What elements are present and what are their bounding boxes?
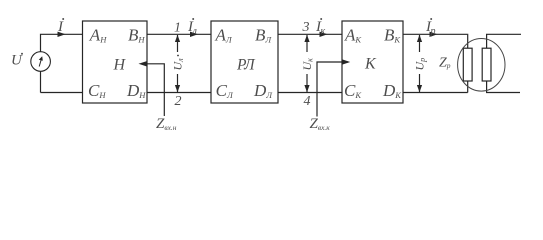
svg-text:DЛ: DЛ: [253, 81, 273, 100]
svg-text:Uл: Uл: [171, 58, 186, 71]
svg-text:DН: DН: [126, 81, 146, 100]
svg-text:к: к: [321, 26, 326, 37]
arrowhead current I_l: [190, 32, 198, 37]
svg-text:3: 3: [302, 20, 310, 35]
wire bottom K to load: [403, 92, 468, 94]
wire bottom H to RL: [147, 92, 211, 94]
svg-text:AЛ: AЛ: [215, 26, 233, 45]
wire bottom RL to K: [278, 92, 342, 94]
load lead bottom-right: [487, 81, 520, 93]
arrowhead Z_vx.n left: [139, 61, 147, 66]
svg-text:BН: BН: [128, 26, 145, 45]
svg-text:BЛ: BЛ: [255, 26, 272, 45]
voltage arrow U_l line bottom: [177, 74, 179, 92]
svg-text:4: 4: [304, 94, 311, 109]
two-port K box: [342, 21, 403, 103]
svg-text:РЛ: РЛ: [236, 56, 256, 73]
label voltage U_r rotated: [413, 58, 428, 71]
voltage arrow U_l line top: [177, 35, 179, 52]
arrowhead voltage U_k down: [304, 85, 309, 92]
arrowhead voltage U_r down: [417, 85, 422, 92]
wire top K to load: [403, 33, 467, 35]
svg-text:л: л: [192, 26, 198, 37]
two-port H box: [83, 21, 148, 103]
svg-text:Zр: Zр: [439, 56, 451, 71]
load impedance rect left: [463, 48, 472, 81]
arrowhead voltage U_l down: [175, 85, 180, 92]
svg-text:Zвх.н: Zвх.н: [156, 116, 177, 132]
wire top RL to K: [278, 33, 342, 35]
arrowhead voltage U_r up: [417, 35, 422, 42]
svg-text:Uр: Uр: [413, 58, 428, 71]
voltage arrow U_r line top: [419, 35, 421, 52]
voltage arrow U_r line bottom: [419, 74, 421, 92]
wire top H to RL: [147, 33, 211, 35]
svg-text:р: р: [430, 26, 436, 37]
arrowhead current I: [58, 32, 66, 37]
label voltage U_k rotated: [300, 58, 315, 71]
load machine circle: [458, 39, 505, 92]
load lead bottom-left: [467, 81, 469, 93]
input impedance arrow Z_vx.n bent line: [141, 64, 164, 116]
label voltage U_l rotated: [171, 55, 186, 71]
svg-text:DК: DК: [382, 81, 402, 100]
wire left vertical top: [41, 34, 83, 52]
svg-text:U: U: [11, 53, 23, 69]
svg-text:I: I: [57, 19, 64, 35]
voltage arrow U_k line top: [306, 35, 308, 52]
voltage arrow U_k line bottom: [306, 74, 308, 92]
svg-text:Н: Н: [113, 57, 127, 74]
svg-text:2: 2: [175, 94, 182, 109]
wire bottom segment source to H: [41, 92, 83, 94]
wire left vertical bottom: [40, 71, 42, 92]
arrowhead source EMF: [39, 56, 43, 61]
svg-text:AН: AН: [89, 26, 107, 45]
two-port RL box: [211, 21, 278, 103]
arrowhead voltage U_k up: [304, 35, 309, 42]
load lead top-right: [487, 34, 521, 48]
svg-text:К: К: [364, 56, 377, 73]
arrowhead Z_vx.k right: [342, 59, 350, 64]
load lead top-left: [466, 34, 468, 48]
load impedance rect right: [482, 48, 491, 81]
svg-text:CЛ: CЛ: [216, 81, 234, 100]
svg-text:AК: AК: [344, 26, 362, 45]
voltage source U circle: [31, 52, 51, 72]
arrowhead current I_r: [430, 32, 438, 37]
input impedance arrow Z_vx.k bent line: [317, 62, 348, 117]
svg-text:BК: BК: [384, 26, 401, 45]
arrowhead current I_k: [320, 32, 328, 37]
arrowhead voltage U_l up: [175, 35, 180, 42]
svg-text:Uк: Uк: [300, 58, 315, 71]
svg-text:CК: CК: [344, 81, 362, 100]
svg-text:CН: CН: [88, 81, 106, 100]
svg-text:1: 1: [174, 21, 181, 36]
source EMF arrow: [39, 58, 42, 67]
svg-text:Zвх.к: Zвх.к: [310, 116, 331, 132]
